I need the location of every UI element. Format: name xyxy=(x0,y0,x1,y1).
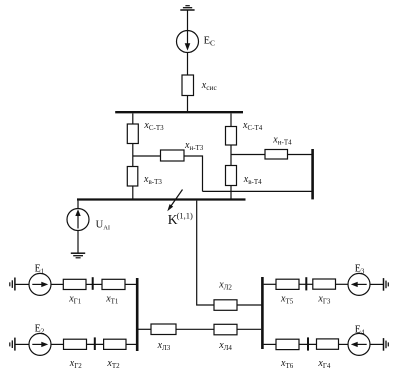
wire busbar1 to x_C-T3 xyxy=(132,114,134,125)
junction tick 4 xyxy=(307,337,309,350)
busbar left (generator node) xyxy=(136,278,139,351)
busbar 1 (upper) xyxy=(115,111,243,113)
source E4 xyxy=(348,333,370,355)
wire x_L4 to right bar xyxy=(237,328,261,330)
wire ground to E_C xyxy=(187,10,189,30)
fault arrow K(1,1) xyxy=(167,190,182,212)
wire horizontal low-voltage link xyxy=(203,190,313,192)
resistor x_G4 xyxy=(317,339,339,349)
resistor x_n-T3 xyxy=(161,150,185,161)
resistor x_G2 xyxy=(64,339,87,349)
busbar 2 (fault bus) xyxy=(77,198,246,200)
resistor x_T6 xyxy=(276,339,299,349)
wire x_C-T4 to x_v-T4 xyxy=(230,145,232,166)
wire E4 to ground xyxy=(370,343,384,345)
wire busbar1 to x_C-T4 xyxy=(230,114,232,127)
resistor x_C-T4 xyxy=(226,127,237,146)
wire ground to E2 xyxy=(15,343,29,345)
wire x_G3 to E3 xyxy=(336,283,349,285)
source U_AI xyxy=(67,209,89,231)
wire node to x_n-T3 xyxy=(133,155,161,157)
wire x_T1 to left bar xyxy=(125,283,136,285)
wire x_n-T4 to right bar xyxy=(288,154,313,156)
ground (below U source) xyxy=(71,253,85,258)
wire E1 to x_G1 xyxy=(51,283,63,285)
wire x_G2 to x_T2 xyxy=(87,343,104,345)
svg-text:(1,1): (1,1) xyxy=(177,211,193,221)
resistor x_n-T4 xyxy=(265,150,288,160)
wire x_T5 to x_G3 xyxy=(299,283,313,285)
wire x_L3 to x_L4 xyxy=(176,328,214,330)
resistor x_T2 xyxy=(104,339,126,349)
wire x_G1 to x_T1 xyxy=(86,283,102,285)
resistor x_T1 xyxy=(102,279,125,289)
wire E2 to x_G2 xyxy=(51,343,63,345)
wire x_n-T3 corner down xyxy=(184,156,203,191)
wire x_L2 to right lower bar xyxy=(237,304,262,306)
resistor x_L2 xyxy=(214,300,237,311)
resistor x_T5 xyxy=(276,279,299,289)
wire x_v-T4 to busbar2 xyxy=(230,186,232,199)
ground (E1, left) xyxy=(10,278,15,291)
junction tick 2 xyxy=(94,337,96,350)
wire node to x_n-T4 xyxy=(231,154,265,156)
ground (top, system) xyxy=(180,6,194,10)
junction tick 1 xyxy=(92,277,94,290)
source E_C xyxy=(177,31,199,53)
ground (E4, right) xyxy=(384,338,389,351)
source E3 xyxy=(348,273,370,295)
resistor x_L3 xyxy=(151,324,176,335)
source E2 xyxy=(29,333,51,355)
wire x_T6 to x_G4 xyxy=(299,343,317,345)
wire right bar to x_T6 xyxy=(264,343,276,345)
wire ground to E1 xyxy=(15,283,29,285)
wire x_v-T3 to busbar2 xyxy=(132,186,134,199)
junction tick 3 xyxy=(305,277,307,290)
resistor x_G3 xyxy=(313,279,336,289)
resistor x_C-T3 xyxy=(127,124,138,144)
wire busbar2 to U source xyxy=(77,201,79,209)
busbar right (generator node) xyxy=(261,277,264,349)
resistor x_G1 xyxy=(63,279,86,289)
wire busbar2 down to x_L2 xyxy=(197,201,214,305)
wire x_C-T3 to x_v-T3 xyxy=(132,144,134,167)
wire x_T2 to left bar xyxy=(126,343,136,345)
wire E_C to x_sys xyxy=(187,53,189,76)
wire x_sys to busbar1 xyxy=(187,96,189,112)
ground (E2, left) xyxy=(10,338,15,351)
wire x_G4 to E4 xyxy=(339,343,349,345)
busbar right (node) xyxy=(311,149,314,199)
resistor x_L4 xyxy=(214,324,237,335)
wire E3 to ground xyxy=(370,283,384,285)
ground (E3, right) xyxy=(384,278,389,291)
wire right bar to x_T5 xyxy=(264,283,276,285)
wire left bar to x_L3 xyxy=(139,328,152,330)
resistor x_v-T4 xyxy=(226,166,237,186)
resistor x_sys xyxy=(182,75,194,96)
source E1 xyxy=(29,273,51,295)
resistor x_v-T3 xyxy=(127,167,138,187)
wire U source to ground xyxy=(77,231,79,254)
